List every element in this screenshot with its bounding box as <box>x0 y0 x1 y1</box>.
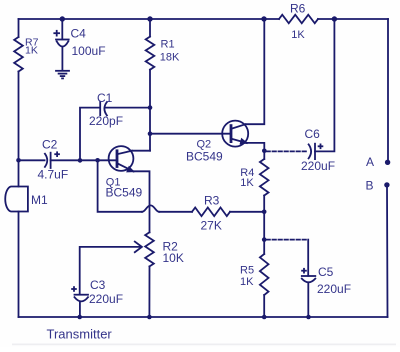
capacitor C5 plates <box>302 275 316 277</box>
capacitor C1 plates <box>99 102 101 115</box>
wire R5 bottom lead <box>263 295 265 317</box>
svg-text:1K: 1K <box>25 44 38 56</box>
resistor R3 <box>192 208 230 217</box>
node R4 bottom <box>262 210 267 215</box>
plus sign C2 <box>54 153 60 155</box>
wire R3 to R4 node <box>230 211 264 213</box>
node C1 branch <box>78 158 83 163</box>
wire bottom rail <box>19 316 388 318</box>
wire left rail top <box>18 19 20 37</box>
capacitor C4 top lead <box>61 19 63 39</box>
svg-text:18K: 18K <box>160 52 180 64</box>
plus sign C5 <box>301 270 307 272</box>
wire left rail middle <box>18 72 20 187</box>
node Q2 emitter <box>262 149 267 154</box>
wire Q1 emitter <box>134 171 150 232</box>
node R6 left <box>261 16 266 21</box>
wire R2 wiper arrow <box>80 247 141 295</box>
capacitor C4 bottom lead <box>61 47 63 70</box>
wire dashed Q2 emitter to C6 <box>267 150 308 152</box>
svg-text:R3: R3 <box>204 194 220 208</box>
plus sign C3 <box>71 288 77 290</box>
svg-text:M1: M1 <box>31 193 48 207</box>
capacitor C2 plates <box>45 154 47 167</box>
svg-text:BC549: BC549 <box>106 186 143 200</box>
ground <box>56 70 69 72</box>
wire R1 bottom to Q1 collector node <box>149 70 151 151</box>
plus sign C6 <box>318 145 324 147</box>
svg-text:R5: R5 <box>240 264 254 276</box>
wire right rail upper <box>387 19 389 161</box>
node R2 bottom <box>147 315 152 320</box>
node R5 top <box>262 237 267 242</box>
wire Q1 base down to R3 with crossover hump <box>98 160 142 212</box>
capacitor C4 plates <box>56 39 69 41</box>
wire Q2 collector to top rail <box>246 19 265 124</box>
node R6 right <box>332 16 337 21</box>
svg-text:C4: C4 <box>71 27 87 41</box>
svg-text:C2: C2 <box>42 138 58 152</box>
svg-text:220uF: 220uF <box>317 282 351 296</box>
svg-text:BC549: BC549 <box>186 149 223 163</box>
svg-text:C6: C6 <box>305 127 321 141</box>
node C1 right <box>148 105 153 110</box>
resistor R6 <box>279 15 318 24</box>
svg-text:10K: 10K <box>163 251 184 265</box>
capacitor C5 bottom lead <box>307 283 309 317</box>
svg-text:220pF: 220pF <box>89 114 123 128</box>
svg-text:C3: C3 <box>90 278 106 292</box>
wire R2 bottom to rail <box>148 266 150 317</box>
capacitor C6 plates <box>309 144 312 158</box>
wire Q2 base <box>150 133 231 135</box>
microphone M1 <box>5 187 28 212</box>
svg-text:1K: 1K <box>240 177 254 189</box>
wire left rail lower <box>18 212 20 318</box>
svg-text:R1: R1 <box>161 39 175 51</box>
svg-text:220uF: 220uF <box>301 159 335 173</box>
node C3 bottom <box>77 315 82 320</box>
svg-text:R6: R6 <box>290 2 306 16</box>
resistor R5 <box>260 254 269 295</box>
node Q1 base <box>95 158 100 163</box>
svg-text:C1: C1 <box>97 91 113 105</box>
capacitor C3 bottom lead <box>79 302 81 318</box>
svg-text:100uF: 100uF <box>72 44 106 58</box>
wire right rail lower <box>386 187 389 317</box>
resistor R1 <box>146 37 155 70</box>
resistor R7 <box>14 37 23 72</box>
resistor R5 top lead <box>263 240 265 254</box>
svg-text:220uF: 220uF <box>89 292 123 306</box>
capacitor C3 plates <box>75 294 89 296</box>
transistor Q2 <box>222 121 248 147</box>
node C2 left <box>16 158 21 163</box>
capacitor C1 right wire <box>106 107 150 109</box>
wire top rail left segment <box>19 18 280 20</box>
node Q2 base <box>148 131 153 136</box>
plus sign C4 <box>53 30 323 292</box>
svg-text:27K: 27K <box>201 219 222 233</box>
transistor Q1 <box>109 146 134 171</box>
capacitor C2 left wire <box>19 159 45 161</box>
node terminal A <box>385 160 390 165</box>
svg-text:B: B <box>366 179 374 193</box>
wire C2 to Q1 base <box>51 159 117 161</box>
wire R3 node down to R5 node <box>263 212 265 240</box>
wire dashed R5 node to C5 <box>267 239 309 241</box>
wire C6 to top rail <box>315 19 334 151</box>
resistor R4 top lead <box>263 151 265 159</box>
resistor R2 top lead from Q1 emitter handled above; resistor R2 <box>145 232 154 266</box>
svg-text:A: A <box>366 155 374 169</box>
wire top rail right segment <box>318 18 388 20</box>
node terminal B <box>384 182 389 187</box>
wire R4 to R3 node <box>263 196 265 212</box>
svg-text:1K: 1K <box>291 29 305 41</box>
svg-text:Transmitter: Transmitter <box>47 327 113 342</box>
svg-text:1K: 1K <box>240 276 254 288</box>
resistor R1 top lead <box>149 19 151 37</box>
node C5 bottom <box>306 315 311 320</box>
wire Q2 emitter to node <box>247 143 264 151</box>
node R5 bottom <box>262 315 267 320</box>
wire C5 top lead <box>307 240 309 276</box>
wire Q1 collector <box>132 150 150 152</box>
svg-text:C5: C5 <box>318 265 334 279</box>
resistor R4 <box>260 159 269 196</box>
node R1 top <box>147 16 152 21</box>
scan artifact line <box>12 343 396 345</box>
capacitor C1 left wire <box>80 108 100 161</box>
svg-text:4.7uF: 4.7uF <box>38 168 69 182</box>
node C4 top <box>60 16 65 21</box>
